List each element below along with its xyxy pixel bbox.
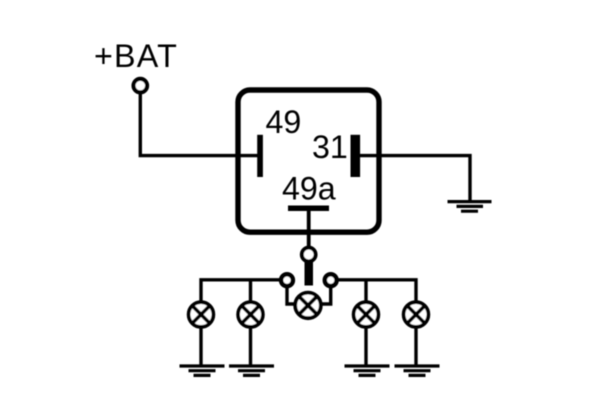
- wire right bus stub to lamp L3: [364, 281, 367, 301]
- ground (lamp L4): [395, 366, 440, 375]
- relay (flasher unit): [238, 90, 379, 232]
- wire right contact to indicator lamp: [322, 286, 331, 304]
- switch pivot contact: [302, 248, 316, 262]
- wire lamp L2 to ground: [249, 328, 252, 366]
- switch lever (turn-signal switch): [305, 260, 314, 286]
- wire left contact to indicator lamp: [287, 286, 295, 304]
- wire pin 49a to switch pivot: [307, 211, 311, 250]
- wire lamp L3 to ground: [364, 328, 367, 366]
- switch left fixed contact: [281, 274, 293, 286]
- wire right bus: [331, 280, 416, 301]
- lamp L3: [354, 302, 379, 327]
- wire left bus stub to lamp L2: [249, 281, 252, 301]
- node +BAT: [94, 38, 178, 74]
- ground (lamp L1): [180, 366, 225, 375]
- lamp L4: [404, 302, 429, 327]
- wire pin 31 to ground: [358, 156, 470, 200]
- lamp (indicator, center): [295, 293, 321, 319]
- switch right fixed contact: [325, 274, 337, 286]
- lamp L2: [238, 302, 263, 327]
- ground (lamp L2): [229, 366, 274, 375]
- svg-text:+BAT: +BAT: [94, 38, 178, 74]
- pin 31: [351, 135, 361, 177]
- pin 49a: [288, 206, 329, 212]
- svg-text:49a: 49a: [282, 171, 336, 207]
- wire left bus: [201, 280, 287, 301]
- ground (lamp L3): [345, 366, 390, 375]
- wire +BAT terminal to pin 49: [140, 92, 257, 156]
- svg-text:31: 31: [312, 129, 348, 165]
- svg-text:49: 49: [266, 104, 302, 140]
- pin 49: [257, 135, 263, 177]
- ground (right of relay): [448, 202, 492, 212]
- wire lamp L1 to ground: [199, 328, 202, 366]
- terminal +BAT: [134, 79, 148, 93]
- wire lamp L4 to ground: [414, 328, 417, 366]
- lamp L1: [189, 302, 214, 327]
